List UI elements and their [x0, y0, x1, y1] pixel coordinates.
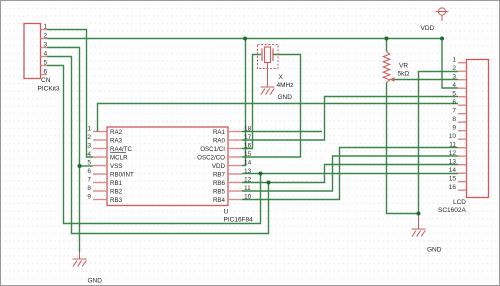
svg-text:17: 17 — [244, 134, 252, 141]
svg-text:RB1: RB1 — [110, 180, 123, 187]
svg-text:11: 11 — [449, 142, 456, 149]
svg-text:2: 2 — [452, 65, 456, 72]
svg-text:RA3: RA3 — [110, 137, 123, 144]
svg-text:11: 11 — [244, 185, 251, 192]
svg-text:GND: GND — [427, 247, 442, 254]
svg-text:7: 7 — [452, 108, 456, 115]
svg-text:VR: VR — [399, 63, 408, 70]
svg-text:GND: GND — [88, 278, 103, 285]
svg-text:7: 7 — [87, 176, 91, 183]
svg-text:6: 6 — [87, 168, 91, 175]
svg-text:RB5: RB5 — [213, 188, 226, 195]
svg-text:RA4/TC: RA4/TC — [110, 146, 133, 153]
svg-text:15: 15 — [244, 151, 252, 158]
svg-text:8: 8 — [87, 185, 91, 192]
svg-text:RB2: RB2 — [110, 188, 123, 195]
svg-text:X: X — [279, 74, 284, 81]
svg-text:4: 4 — [87, 151, 91, 158]
svg-text:MCLR: MCLR — [110, 154, 128, 161]
svg-text:5: 5 — [87, 159, 91, 166]
svg-text:3: 3 — [452, 74, 456, 81]
svg-text:VSS: VSS — [110, 163, 122, 170]
svg-text:RB0/INT: RB0/INT — [110, 171, 134, 178]
svg-text:12: 12 — [244, 176, 252, 183]
svg-text:4MHz: 4MHz — [277, 82, 294, 89]
svg-text:1: 1 — [452, 57, 456, 64]
svg-text:RA1: RA1 — [213, 129, 226, 136]
svg-text:4: 4 — [44, 50, 48, 57]
svg-text:OSC1/CI: OSC1/CI — [200, 146, 225, 153]
svg-text:6: 6 — [44, 68, 48, 75]
svg-text:RB7: RB7 — [213, 171, 226, 178]
svg-text:5kΩ: 5kΩ — [398, 71, 410, 78]
svg-text:3: 3 — [87, 142, 91, 149]
svg-text:U: U — [224, 209, 229, 216]
svg-text:8: 8 — [452, 116, 456, 123]
svg-text:9: 9 — [87, 193, 91, 200]
svg-text:5: 5 — [44, 59, 48, 66]
svg-text:16: 16 — [244, 142, 252, 149]
svg-text:10: 10 — [244, 193, 252, 200]
svg-text:PICKit3: PICKit3 — [38, 86, 60, 93]
svg-text:3: 3 — [44, 41, 48, 48]
svg-text:13: 13 — [449, 159, 457, 166]
svg-text:6: 6 — [452, 99, 456, 106]
svg-text:4: 4 — [452, 82, 456, 89]
svg-text:10: 10 — [449, 133, 457, 140]
svg-text:OSC2/CO: OSC2/CO — [197, 154, 225, 161]
svg-text:RB6: RB6 — [213, 180, 226, 187]
svg-text:LCD: LCD — [453, 199, 466, 206]
svg-text:5: 5 — [452, 91, 456, 98]
svg-text:CN: CN — [41, 77, 51, 84]
svg-text:16: 16 — [449, 184, 457, 191]
svg-text:12: 12 — [449, 150, 457, 157]
svg-text:SC1602A: SC1602A — [438, 207, 466, 214]
svg-text:14: 14 — [244, 159, 252, 166]
svg-text:2: 2 — [87, 134, 91, 141]
svg-text:RA2: RA2 — [110, 129, 123, 136]
svg-text:9: 9 — [452, 125, 456, 132]
svg-text:RA0: RA0 — [213, 137, 226, 144]
svg-text:PIC16F84: PIC16F84 — [224, 217, 254, 224]
svg-text:2: 2 — [44, 32, 48, 39]
svg-text:RB3: RB3 — [110, 197, 123, 204]
svg-text:VDD: VDD — [212, 163, 226, 170]
svg-text:VDD: VDD — [421, 25, 435, 32]
svg-text:1: 1 — [87, 125, 91, 132]
svg-text:1: 1 — [44, 23, 48, 30]
svg-text:13: 13 — [244, 168, 252, 175]
svg-text:RB4: RB4 — [213, 197, 226, 204]
svg-text:14: 14 — [449, 167, 457, 174]
svg-text:GND: GND — [278, 94, 293, 101]
svg-text:18: 18 — [244, 125, 252, 132]
svg-text:15: 15 — [449, 176, 457, 183]
